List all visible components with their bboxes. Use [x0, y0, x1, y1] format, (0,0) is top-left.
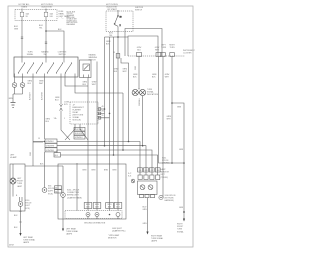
svg-text:RIGHT REAR: RIGHT REAR: [151, 235, 163, 238]
switch blades x6: [19, 64, 72, 73]
svg-text:SIGNAL: SIGNAL: [27, 53, 34, 56]
vertical v109: [109, 37, 111, 211]
label HOT AT ALL TIMES (left): [18, 3, 30, 9]
left headlamp box: [10, 164, 25, 211]
svg-text:LAMPS: LAMPS: [66, 233, 73, 236]
wire x75 short: [75, 77, 123, 93]
svg-text:LEFT REAR: LEFT REAR: [66, 228, 77, 231]
svg-text:(TRUNK): (TRUNK): [161, 177, 169, 179]
fuse F10: [44, 9, 53, 22]
svg-text:POWER DIST: POWER DIST: [67, 20, 77, 22]
svg-text:*—: *—: [61, 18, 64, 20]
splice g3: [95, 213, 99, 217]
svg-text:TURN SIGNAL: TURN SIGNAL: [23, 239, 35, 242]
svg-text:GRN: GRN: [179, 149, 184, 151]
ground dashed box: [65, 211, 122, 219]
svg-text:KICK): KICK): [25, 208, 30, 210]
flasher label: [161, 168, 170, 179]
crossing labels: [74, 127, 85, 139]
relay bottom wires crossing: [65, 124, 88, 140]
fuse F5: [20, 9, 29, 22]
svg-text:WARNING: WARNING: [89, 56, 98, 59]
drop x63 to splice: [62, 166, 64, 193]
splice S244: [61, 193, 66, 198]
svg-text:1: 1: [64, 118, 65, 120]
merge to ground: [13, 94, 23, 102]
svg-text:NOTE: FOR: NOTE: FOR: [67, 11, 77, 13]
center bus split: [105, 36, 129, 38]
left small text + circle: [128, 173, 131, 178]
svg-text:KICK): KICK): [48, 193, 53, 195]
svg-text:MONITOR: MONITOR: [108, 238, 117, 240]
vertical v88 hazard: [87, 78, 89, 211]
svg-text:BULB TEST: BULB TEST: [42, 7, 54, 9]
below indicators: [142, 96, 144, 146]
cluster terminals: [137, 53, 175, 57]
wire below box left 2: [22, 77, 24, 82]
border frame: [8, 6, 193, 247]
bus label stack: [45, 139, 61, 157]
flasher circle right: [159, 195, 163, 199]
wire fuse1 to switch: [21, 21, 23, 57]
svg-text:30: 30: [120, 17, 122, 19]
flasher label boxes: [138, 168, 161, 172]
svg-text:GRN/BLK: GRN/BLK: [46, 141, 55, 143]
relay right terminals: [98, 108, 110, 119]
svg-text:CLUSTER: CLUSTER: [183, 53, 192, 55]
vertical v128 via elbow: [116, 54, 120, 59]
instrument cluster outer box: [125, 29, 162, 57]
vertical v113: [113, 37, 115, 155]
svg-text:A24: A24: [116, 206, 119, 209]
flasher bottom terminals: [140, 195, 155, 198]
middle rear box: [58, 164, 126, 219]
svg-text:GRN: GRN: [143, 223, 148, 225]
wires to splice pair: [13, 184, 22, 202]
svg-text:TURN: TURN: [161, 47, 167, 49]
svg-text:31: 31: [102, 115, 104, 117]
svg-text:SIGNAL: SIGNAL: [147, 91, 154, 94]
svg-text:YEL: YEL: [39, 27, 42, 29]
svg-text:MODULE): MODULE): [73, 119, 82, 121]
svg-text:GW: GW: [144, 170, 147, 172]
flasher drop: [147, 198, 149, 232]
svg-text:GRN: GRN: [14, 28, 19, 30]
svg-text:HOT AT ALL: HOT AT ALL: [18, 3, 30, 6]
lamp feed: [12, 164, 14, 179]
wire x47 down: [44, 77, 46, 188]
svg-text:03747: 03747: [9, 245, 14, 247]
internal stubs: [15, 57, 76, 77]
vertical v118: [117, 37, 119, 211]
svg-text:GRN/BLK: GRN/BLK: [75, 137, 84, 139]
svg-text:LAMP: LAMP: [161, 168, 167, 171]
svg-text:A28: A28: [95, 206, 98, 209]
cluster lamp label: [147, 89, 159, 96]
lamp label: [17, 178, 24, 188]
svg-text:A30: A30: [86, 206, 89, 209]
cluster terminal labels: [137, 44, 176, 51]
svg-text:TURN: TURN: [170, 47, 176, 49]
svg-text:PANEL: PANEL: [59, 13, 65, 16]
svg-text:LAMP: LAMP: [17, 185, 23, 188]
svg-text:TURN SIGNAL: TURN SIGNAL: [66, 230, 78, 233]
svg-text:T4k: T4k: [54, 118, 57, 120]
splice label right: [162, 158, 170, 165]
branch wire to x64: [46, 31, 64, 57]
svg-text:HAZARD: HAZARD: [89, 53, 97, 56]
indicator lamps: [138, 88, 140, 89]
svg-text:* WITH LAMP: * WITH LAMP: [108, 234, 120, 237]
label HOT (ignition): [106, 4, 119, 11]
svg-text:SWITCH: SWITCH: [135, 10, 143, 12]
svg-text:BLK/WHT: BLK/WHT: [30, 91, 32, 100]
arrowhead: [19, 233, 21, 236]
long wire x33 down-left: [32, 77, 34, 166]
svg-text:TURN SIGNAL: TURN SIGNAL: [151, 237, 163, 240]
flasher terminals top: [138, 175, 160, 180]
connector circle 2: [20, 83, 25, 88]
label HOT IN RUN: [41, 4, 54, 9]
turn signal switch box: [14, 57, 78, 77]
vertical v97: [96, 62, 98, 211]
ignition switch dashed box: [106, 11, 133, 32]
splice circle left: [18, 202, 23, 207]
svg-text:INDICATORS: INDICATORS: [147, 93, 159, 96]
indicator drop: [138, 57, 140, 90]
vertical v104: [104, 37, 106, 146]
h line y166: [25, 165, 63, 167]
wire x65 to hazard drop: [65, 77, 88, 86]
connector tick: [21, 37, 47, 44]
svg-text:GRN: GRN: [135, 65, 137, 70]
svg-text:TIMES: TIMES: [21, 7, 28, 9]
wire below ignition: [117, 31, 119, 37]
svg-text:15: 15: [113, 52, 115, 54]
ignition label: [135, 7, 144, 12]
bus line 4: [61, 155, 158, 175]
inner drop x77: [76, 163, 78, 211]
wire x61 with inline connector: [60, 77, 62, 104]
svg-text:BLK/WHT: BLK/WHT: [75, 129, 84, 131]
T to bus stack: [33, 141, 43, 143]
bus line 3: [57, 150, 152, 175]
left headlamp title: [10, 155, 17, 160]
svg-text:HARNESS): HARNESS): [165, 199, 175, 202]
node on fuse2 wire: [45, 30, 47, 32]
bus line 2: [57, 146, 146, 175]
svg-text:YEL: YEL: [109, 35, 112, 37]
svg-text:GRN: GRN: [30, 151, 32, 156]
svg-text:GRN/WHT: GRN/WHT: [46, 146, 55, 148]
drop x172 and right lamp line x184: [171, 57, 173, 164]
svg-text:S5: S5: [26, 16, 28, 18]
splice g4: [109, 214, 111, 216]
wire fuse2 to switch: [45, 21, 47, 57]
flasher unit: [138, 181, 158, 195]
svg-text:S./4: S./4: [128, 176, 131, 178]
svg-text:OR START: OR START: [107, 8, 118, 11]
svg-text:S10: S10: [50, 16, 53, 18]
wire below splice: [20, 206, 22, 233]
svg-text:49a: 49a: [102, 111, 105, 113]
svg-text:49: 49: [102, 106, 104, 108]
svg-text:LEFT REAR: LEFT REAR: [23, 236, 34, 239]
svg-text:GRN/BLU: GRN/BLU: [139, 97, 141, 106]
drop wire labels in box: [83, 170, 117, 172]
svg-text:BLK/GRN: BLK/GRN: [75, 133, 84, 135]
svg-text:QUARTER PANEL: QUARTER PANEL: [67, 196, 82, 199]
connector circle 1: [12, 83, 17, 88]
relay dashed box: [70, 102, 98, 124]
svg-text:CIRCUIT: CIRCUIT: [67, 13, 73, 15]
ignition blade: [114, 10, 121, 31]
svg-text:H/LAMP: H/LAMP: [10, 156, 17, 159]
splice g2: [86, 213, 90, 217]
ground symbol: [11, 103, 16, 108]
svg-text:BLK/GRN: BLK/GRN: [42, 91, 44, 100]
svg-text:QUARTER PNL): QUARTER PNL): [112, 230, 126, 233]
svg-text:LAMPS: LAMPS: [23, 241, 30, 244]
drop labels: [84, 203, 122, 209]
svg-text:(TRUNK): (TRUNK): [162, 163, 170, 165]
bus line 1: [33, 142, 140, 176]
labels above switch box: [27, 51, 67, 57]
hazard switch box: [80, 60, 92, 78]
fuse panel label: [59, 11, 70, 18]
relay text: [73, 104, 85, 121]
right arrow: [183, 219, 185, 222]
drop x163 to S240: [162, 57, 164, 198]
hazard label: [89, 53, 98, 61]
fuse block dashed box: [15, 10, 57, 21]
drop x158 to S241 corner: [159, 57, 185, 164]
instrument cluster box: [128, 36, 158, 56]
svg-text:SWITCH: SWITCH: [89, 60, 97, 62]
svg-text:GRN: GRN: [177, 107, 182, 109]
svg-text:GRN: GRN: [143, 209, 148, 211]
svg-text:SWITCH: SWITCH: [58, 54, 66, 56]
splice circle right: [42, 188, 47, 193]
wire below box left 1: [14, 77, 16, 82]
svg-text:SW: SW: [44, 54, 47, 56]
note text block: [67, 11, 79, 26]
left front turn lamp: [10, 178, 16, 184]
vertical v123: [122, 93, 124, 150]
svg-text:GRN/RED: GRN/RED: [46, 150, 55, 152]
svg-text:15: 15: [38, 138, 40, 140]
svg-text:GROUND DISTRIBUTION: GROUND DISTRIBUTION: [84, 222, 106, 224]
svg-text:SIGNAL: SIGNAL: [177, 230, 184, 233]
svg-text:GRN: GRN: [179, 207, 184, 209]
svg-text:A26: A26: [108, 206, 111, 209]
svg-text:LAMPS: LAMPS: [151, 240, 158, 243]
